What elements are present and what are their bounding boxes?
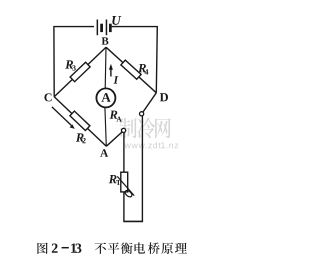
node C label bbox=[44, 93, 51, 101]
wire top-right from battery to corner bbox=[112, 26, 158, 28]
wire right vertical to node D bbox=[156, 26, 157, 93]
wire node D to output terminal bbox=[143, 93, 156, 112]
galvanometer circle bbox=[96, 88, 115, 107]
wire left terminal down to thermistor bbox=[123, 133, 125, 173]
resistor R4 bbox=[121, 60, 141, 79]
wire top-left from battery to corner bbox=[54, 26, 94, 28]
label R4 bbox=[138, 64, 146, 72]
wire bridge arm C-A bbox=[54, 97, 106, 147]
arrow of adjustable R2 bbox=[52, 107, 72, 126]
current arrow I bbox=[110, 69, 112, 77]
label RT bbox=[109, 175, 117, 183]
galvanometer letter A bbox=[101, 93, 110, 102]
wire left vertical to node C bbox=[53, 26, 55, 97]
battery cell plates bbox=[97, 20, 99, 36]
wire node A to output terminal bbox=[106, 132, 122, 146]
resistor R3 bbox=[70, 62, 90, 81]
node D label bbox=[160, 93, 168, 101]
label R2 bbox=[76, 133, 84, 141]
thermistor RT diagonal stroke bbox=[117, 176, 134, 195]
label U bbox=[112, 16, 121, 25]
resistor R2 adjustable bbox=[70, 111, 90, 130]
wire B to galvanometer bbox=[104, 47, 107, 89]
caption character 图 bbox=[37, 243, 47, 254]
label I bbox=[113, 76, 118, 84]
wire bridge arm B-D bbox=[106, 47, 156, 93]
output terminal from A bbox=[122, 128, 126, 132]
wire galvanometer to node A bbox=[105, 107, 106, 146]
caption text 不平衡电桥原理 bbox=[95, 243, 106, 254]
watermark text zhileng bbox=[120, 118, 137, 138]
wire right terminal down bbox=[141, 116, 143, 221]
label R3 bbox=[65, 60, 73, 68]
wire thermistor to bottom loop bbox=[123, 192, 125, 222]
wire bridge arm C-B bbox=[54, 47, 106, 96]
thermistor RT loop foot bbox=[124, 189, 133, 198]
watermark url bbox=[125, 144, 131, 149]
caption 2-13 bbox=[52, 244, 58, 253]
label RA bbox=[110, 111, 118, 119]
node B label bbox=[102, 37, 109, 44]
wire bottom connecting loop bbox=[123, 220, 143, 222]
thermistor RT body bbox=[121, 172, 128, 192]
node A label bbox=[100, 149, 108, 157]
output terminal from D bbox=[140, 112, 144, 116]
